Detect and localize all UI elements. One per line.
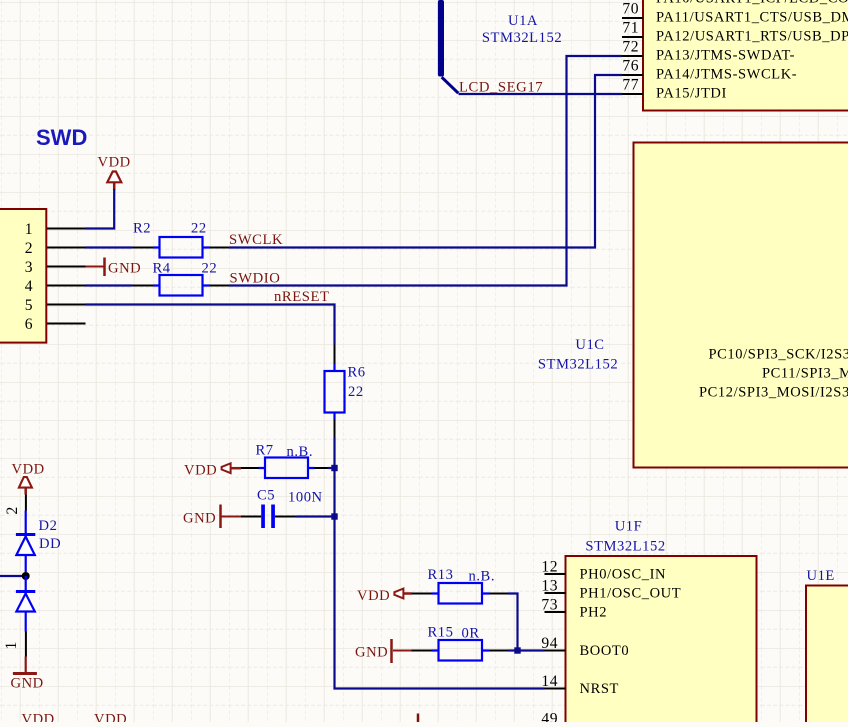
svg-text:PH2: PH2 [580, 605, 608, 621]
power GND (D2 bottom) [11, 657, 44, 692]
connector pin 3 [25, 259, 86, 276]
junction D2 [22, 572, 30, 580]
U1C pin PC10 [709, 347, 848, 363]
svg-text:PC11/SPI3_MISO: PC11/SPI3_MISO [762, 366, 848, 382]
U1F pin 73 PH2 [541, 597, 607, 621]
power VDD (bottom edge, cut) [22, 712, 55, 727]
power GND (C5) [183, 505, 241, 529]
U1F pin 49 (number only) [541, 711, 558, 727]
R15 designator [428, 625, 454, 641]
resistor R13 [412, 583, 509, 604]
diode D2 (dual, top) [16, 511, 35, 573]
U1F designator [585, 519, 665, 555]
svg-text:U1C: U1C [575, 337, 604, 353]
power VDD (R13) [357, 588, 412, 604]
D2 pin 1 [3, 632, 26, 657]
power GND (connector pin3) [86, 258, 142, 277]
D2 designator [39, 518, 58, 534]
resistor R2 [153, 237, 210, 258]
svg-text:PA11/USART1_CTS/USB_DM: PA11/USART1_CTS/USB_DM [656, 10, 848, 26]
R13 designator [428, 567, 454, 583]
U1F pin 12 PH0 [541, 559, 666, 583]
svg-text:100N: 100N [288, 490, 323, 506]
svg-text:GND: GND [183, 511, 216, 527]
R7 value n.B. [287, 444, 314, 460]
U1A pin PA10 (partial row) [656, 0, 848, 7]
U1C pin PC11 [762, 366, 848, 382]
svg-text:22: 22 [202, 261, 218, 277]
wire R13 to BOOT0 node [508, 594, 518, 651]
U1C pin PC12 [699, 385, 848, 401]
svg-text:VDD: VDD [98, 155, 131, 171]
R15 value 0R [462, 626, 480, 642]
power VDD (D2 top) [12, 462, 45, 495]
junction BOOT0 [514, 647, 520, 653]
resistor R4 [153, 275, 210, 296]
svg-text:70: 70 [622, 1, 639, 18]
R2 designator [133, 221, 151, 237]
svg-text:13: 13 [541, 578, 558, 595]
svg-text:nRESET: nRESET [274, 289, 330, 305]
svg-text:22: 22 [348, 384, 364, 400]
R4 value 22 [202, 261, 218, 277]
svg-text:49: 49 [541, 711, 558, 723]
wire to D2 node [0, 575, 26, 577]
svg-text:14: 14 [541, 673, 558, 690]
svg-text:VDD: VDD [184, 463, 217, 479]
U1F pin 14 NRST [541, 673, 619, 697]
svg-text:1: 1 [25, 221, 33, 238]
wire nRESET (pin5 to R6 top) [86, 305, 335, 345]
svg-text:GND: GND [108, 261, 141, 277]
power symbol stem (bottom, cut) [417, 714, 420, 723]
svg-text:0R: 0R [462, 626, 480, 642]
R7 designator [256, 443, 274, 459]
svg-text:NRST: NRST [580, 681, 619, 697]
svg-text:22: 22 [191, 221, 207, 237]
IC U1F body (STM32L152 part F) [566, 556, 757, 727]
U1A pin 70 PA11 [622, 1, 848, 26]
U1F pin 94 BOOT0 [541, 635, 629, 659]
resistor R7 [241, 458, 328, 479]
U1C designator [538, 337, 618, 373]
U1E designator [807, 568, 835, 584]
svg-text:BOOT0: BOOT0 [580, 643, 630, 659]
wire SWCLK right (R2 to pin76) [210, 75, 622, 248]
svg-text:PA13/JTMS-SWDAT-: PA13/JTMS-SWDAT- [656, 48, 795, 64]
connector pin 1 [25, 221, 86, 238]
svg-text:U1E: U1E [807, 568, 835, 584]
U1A designator [482, 13, 562, 46]
svg-text:n.B.: n.B. [469, 569, 496, 585]
junction C5/nRESET [331, 513, 337, 519]
svg-text:77: 77 [622, 77, 639, 94]
junction R7/nRESET [331, 465, 337, 471]
svg-text:71: 71 [622, 20, 639, 37]
svg-text:PH0/OSC_IN: PH0/OSC_IN [580, 567, 667, 583]
wire R15 to BOOT0 pin [508, 649, 545, 651]
D2 value DD [39, 536, 61, 552]
svg-text:GND: GND [355, 645, 388, 661]
svg-text:12: 12 [541, 559, 558, 576]
svg-text:SWCLK: SWCLK [229, 232, 283, 248]
U1A pin 71 PA12 [622, 20, 848, 45]
U1A pin 77 PA15 [622, 77, 727, 102]
svg-text:PH1/OSC_OUT: PH1/OSC_OUT [580, 586, 682, 602]
svg-text:R4: R4 [153, 261, 171, 277]
net label SWDIO [230, 270, 281, 286]
svg-text:U1A: U1A [508, 13, 538, 29]
svg-text:PC10/SPI3_SCK/I2S3_CK: PC10/SPI3_SCK/I2S3_CK [709, 347, 848, 363]
svg-text:VDD: VDD [22, 712, 55, 723]
svg-text:3: 3 [25, 259, 33, 276]
resistor R6 (vertical) [325, 345, 345, 439]
svg-text:R15: R15 [428, 625, 454, 641]
svg-text:R6: R6 [348, 365, 366, 381]
svg-text:2: 2 [25, 240, 33, 257]
capacitor C5 [241, 505, 296, 529]
R13 value n.B. [469, 569, 496, 585]
svg-text:STM32L152: STM32L152 [482, 30, 562, 46]
svg-text:R13: R13 [428, 567, 454, 583]
svg-text:1: 1 [3, 641, 20, 649]
wire LCD_SEG17 to pin 77 [459, 93, 623, 95]
power VDD (bottom edge 2, cut) [94, 712, 127, 727]
svg-text:76: 76 [622, 58, 639, 75]
U1F pin 13 PH1 [541, 578, 681, 602]
R4 designator [153, 261, 171, 277]
svg-text:DD: DD [39, 536, 61, 552]
svg-text:PC12/SPI3_MOSI/I2S3_SD: PC12/SPI3_MOSI/I2S3_SD [699, 385, 848, 401]
svg-text:R2: R2 [133, 221, 151, 237]
net label SWCLK [229, 232, 283, 248]
IC U1A body (STM32L152 part A) [643, 0, 848, 111]
svg-text:2: 2 [4, 506, 21, 514]
title SWD [36, 125, 87, 150]
svg-text:5: 5 [25, 297, 33, 314]
svg-text:U1F: U1F [615, 519, 643, 535]
power GND (R15) [355, 639, 412, 663]
net label nRESET [274, 289, 330, 305]
R6 value 22 [348, 384, 364, 400]
wire C5 to node [296, 515, 335, 517]
svg-text:94: 94 [541, 635, 558, 652]
svg-text:73: 73 [541, 597, 558, 614]
wire SWDIO left (pin4 to R4) [86, 284, 154, 286]
wire main vertical (R6 to NRST) [335, 438, 545, 689]
svg-text:4: 4 [25, 278, 33, 295]
svg-text:6: 6 [25, 316, 33, 333]
connector pin 4 [25, 278, 86, 295]
svg-text:R7: R7 [256, 443, 274, 459]
power VDD (top, connector pin1) [98, 155, 131, 191]
resistor R15 [412, 640, 509, 661]
wire SWCLK left (pin2 to R2) [86, 246, 154, 248]
connector pin 5 [25, 297, 86, 314]
U1A pin 76 PA14 [622, 58, 797, 83]
svg-text:C5: C5 [257, 488, 275, 504]
svg-text:VDD: VDD [357, 588, 390, 604]
diode D2 (dual, bottom) [16, 576, 35, 632]
wire pin1 to VDD [86, 189, 115, 229]
U1A pin 72 PA13 [622, 39, 795, 64]
svg-text:PA15/JTDI: PA15/JTDI [656, 86, 727, 102]
connector pin 6 [25, 316, 86, 333]
connector pin 2 [25, 240, 86, 257]
svg-text:STM32L152: STM32L152 [538, 357, 618, 373]
power VDD (R7) [184, 463, 241, 479]
svg-text:PA10/USART1_ICP/LCD_COM2: PA10/USART1_ICP/LCD_COM2 [656, 0, 848, 7]
IC U1C body (STM32L152 part C) [634, 143, 848, 468]
svg-text:PA14/JTMS-SWCLK-: PA14/JTMS-SWCLK- [656, 67, 797, 83]
svg-text:72: 72 [622, 39, 639, 56]
svg-text:n.B.: n.B. [287, 444, 314, 460]
C5 value 100N [288, 490, 323, 506]
D2 pin 2 [4, 495, 26, 515]
wire SWDIO right (R4 to pin72) [210, 56, 622, 286]
net label LCD_SEG17 [459, 79, 543, 95]
svg-text:VDD: VDD [94, 712, 127, 723]
svg-text:STM32L152: STM32L152 [585, 539, 665, 555]
IC U1E body (STM32L152 part E) [806, 586, 848, 727]
svg-text:D2: D2 [39, 518, 58, 534]
svg-text:SWDIO: SWDIO [230, 270, 281, 286]
R2 value 22 [191, 221, 207, 237]
svg-text:SWD: SWD [36, 125, 87, 150]
svg-text:VDD: VDD [12, 462, 45, 478]
connector P1 body (SWD header) [0, 209, 46, 343]
svg-text:PA12/USART1_RTS/USB_DP: PA12/USART1_RTS/USB_DP [656, 29, 848, 45]
C5 designator [257, 488, 275, 504]
bus segment (thick) [438, 0, 458, 93]
wire R7 to node [328, 467, 335, 469]
R6 designator [348, 365, 366, 381]
svg-text:GND: GND [11, 676, 44, 692]
